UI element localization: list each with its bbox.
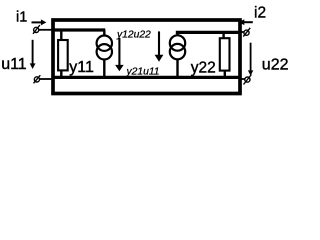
- terminal port2 bottom: [244, 75, 252, 85]
- svg-text:y21u11: y21u11: [126, 67, 160, 78]
- current arrow i2: [239, 19, 253, 25]
- voltage arrow u22: [248, 43, 253, 76]
- svg-text:i2: i2: [254, 5, 266, 22]
- two-port enclosure box: [53, 20, 240, 94]
- svg-text:y22: y22: [191, 60, 216, 77]
- terminal port2 top: [243, 28, 250, 37]
- label u11: [1, 56, 27, 73]
- svg-text:u22: u22: [262, 57, 289, 74]
- controlled current source y12u22: [97, 30, 112, 78]
- controlled current source y21u11: [170, 32, 185, 77]
- label i1: [16, 10, 27, 26]
- label y22: [191, 60, 216, 77]
- voltage arrow u11: [30, 40, 36, 69]
- label u22: [262, 57, 289, 74]
- current arrow i1: [32, 19, 47, 25]
- current direction arrow of y21u11: [155, 31, 164, 61]
- label y12u22: [116, 30, 151, 41]
- label y21u11: [126, 67, 160, 78]
- label y11: [69, 59, 94, 76]
- wire: port2 bottom terminal to box: [240, 78, 245, 80]
- wire: right top rail: [176, 31, 240, 34]
- label i2: [254, 5, 266, 22]
- admittance y11: [58, 31, 68, 78]
- wire: port1 bottom terminal to box: [40, 78, 55, 80]
- svg-text:i1: i1: [16, 10, 27, 26]
- current direction arrow of y12u22: [115, 38, 124, 71]
- terminal port1 top: [33, 25, 40, 34]
- svg-text:y12u22: y12u22: [116, 30, 151, 41]
- wire: common bottom rail: [53, 76, 240, 79]
- wire: port1 top terminal to box: [39, 29, 55, 31]
- admittance y22: [220, 33, 230, 78]
- wire: port2 top terminal to box: [240, 31, 244, 33]
- terminal port1 bottom: [34, 75, 41, 83]
- svg-text:u11: u11: [1, 56, 27, 73]
- svg-text:y11: y11: [69, 59, 94, 76]
- wire: left top rail: [53, 28, 105, 31]
